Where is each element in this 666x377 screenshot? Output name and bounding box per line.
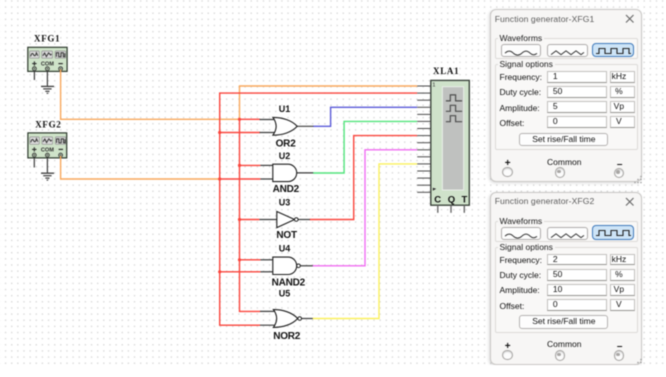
XLA1 bottom pins C Q T [438, 205, 465, 213]
sine wave button [501, 227, 542, 240]
svg-text:COM: COM [41, 147, 54, 153]
junction U4 input B tap [218, 270, 221, 273]
sine wave button [501, 44, 542, 57]
svg-text:XFG2: XFG2 [35, 120, 61, 130]
svg-text:1: 1 [432, 83, 435, 89]
logic analyzer XLA1 [431, 66, 470, 205]
wire junction A up to XLA1 pin1 (orange) [240, 86, 418, 119]
junction U2 input A tap [238, 164, 241, 167]
wire junction A to U1 input A (red) [240, 118, 261, 120]
function generator XFG2 [28, 120, 67, 173]
wire U5 output to XLA1 pin12 (yellow) [312, 164, 417, 319]
wire U1 output to XLA1 pin4 (blue) [313, 107, 417, 126]
wire junction B up to XLA1 pin2 (red) [220, 93, 418, 179]
AND gate U2 [260, 151, 313, 195]
svg-text:U2: U2 [279, 151, 291, 161]
square wave button (selected) [592, 43, 634, 57]
ground of XFG1 [41, 86, 54, 93]
svg-text:U5: U5 [279, 289, 291, 299]
ground of XFG2 [41, 173, 54, 180]
svg-text:NOR2: NOR2 [273, 331, 301, 342]
junction B (XFG2 net) [218, 177, 221, 180]
wire branch to U3 input (red) [240, 219, 260, 221]
wire junction B to U2 input B (red) [220, 178, 261, 180]
svg-text:XLA1: XLA1 [433, 66, 459, 76]
wire U2 output to XLA1 pin6 (green) [313, 121, 417, 173]
svg-text:XFG1: XFG1 [34, 34, 60, 44]
svg-text:NOT: NOT [276, 230, 297, 241]
svg-text:U3: U3 [279, 198, 291, 208]
wire XFG2 net vertical bus down to U5 input B (red) [220, 179, 260, 325]
dialog: Function generator XFG1 [490, 9, 642, 182]
wire branch to U1 input B (red) [220, 132, 260, 134]
svg-text:U4: U4 [279, 243, 291, 253]
junction U3 input tap [238, 218, 241, 221]
svg-text:OR2: OR2 [276, 139, 297, 150]
XLA1 left pins 1-16 [417, 86, 431, 192]
wire XFG1 minus pin to junction A (orange) [61, 70, 240, 120]
OR gate U1 [260, 104, 314, 150]
wire XFG1 net vertical bus down to U5 input A (red) [240, 119, 261, 311]
function generator XFG1 [28, 34, 67, 86]
svg-text:Q: Q [448, 194, 455, 205]
svg-text:U1: U1 [279, 104, 291, 114]
triangle wave button [547, 227, 588, 240]
wire XFG2 minus pin to junction B (orange) [61, 156, 220, 179]
wire branch to U2 input A (red) [240, 164, 261, 166]
wire U3 output to XLA1 pin8 (red) [310, 136, 418, 220]
wire branch to U4 input B (red) [220, 271, 261, 273]
wire U4 output to XLA1 pin10 (magenta) [312, 150, 417, 266]
junction A (XFG1 net) [238, 118, 241, 121]
dialog: Function generator XFG2 [490, 192, 642, 365]
junction U1 input B tap [218, 131, 221, 134]
NOT gate U3 [259, 198, 310, 242]
NOR gate U5 [260, 289, 313, 343]
square wave button (selected) [592, 225, 634, 239]
triangle wave button [547, 44, 588, 57]
wire branch to U4 input A (red) [240, 259, 261, 261]
NAND gate U4 [260, 243, 312, 288]
junction U4 input A tap [238, 258, 241, 261]
svg-text:T: T [461, 194, 467, 205]
svg-text:NAND2: NAND2 [272, 277, 306, 288]
svg-text:AND2: AND2 [273, 184, 300, 195]
svg-text:C: C [434, 194, 441, 205]
